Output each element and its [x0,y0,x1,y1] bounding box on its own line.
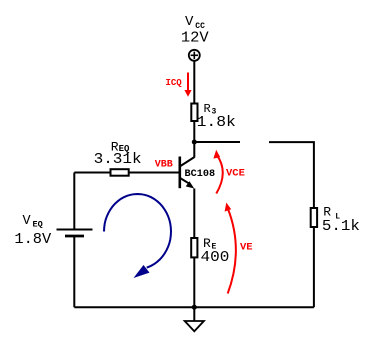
svg-text:VE: VE [240,241,253,253]
battery VEQ [57,229,93,231]
wire top right segment A [194,141,240,143]
wire bottom rail [74,306,314,308]
wire to ground [193,307,195,321]
voltage arrow VE [228,209,236,294]
voltage arrow VCE [216,155,222,194]
wire left branch upper [73,173,75,230]
wire emitter to RE [193,189,195,239]
svg-text:1.8k: 1.8k [197,113,236,131]
svg-text:EQ: EQ [33,219,43,229]
svg-text:VBB: VBB [155,159,173,170]
svg-text:ICQ: ICQ [166,78,183,88]
current arrow ICQ [184,73,191,97]
wire left branch lower [73,236,75,307]
svg-text:400: 400 [201,248,230,266]
transistor Q1 BC108 [180,142,195,188]
svg-text:5.1k: 5.1k [322,217,360,235]
wire base (left branch top) [74,172,179,174]
node junction dot bottom [192,305,197,310]
supply terminal circle-plus [189,50,200,61]
transistor emitter arrowhead [186,181,195,188]
ground [185,321,204,331]
resistor RL [311,208,317,227]
svg-text:12V: 12V [181,29,210,47]
resistor REQ [111,169,129,176]
node junction dot top [192,140,197,145]
svg-text:VCE: VCE [226,168,245,180]
resistor RE [191,238,197,257]
svg-text:3.31k: 3.31k [94,150,142,168]
svg-text:1.8V: 1.8V [14,230,52,248]
svg-text:V: V [23,214,32,229]
loop arrow (blue) [104,194,171,268]
resistor R3 [191,104,197,122]
wire RE to ground node [193,257,195,307]
wire RL to bottom [313,227,315,307]
wire supply to R3 [193,61,195,104]
wire R3 to collector node [193,121,195,142]
svg-text:BC108: BC108 [185,169,216,180]
wire top right segment B (after gap) [269,142,314,208]
